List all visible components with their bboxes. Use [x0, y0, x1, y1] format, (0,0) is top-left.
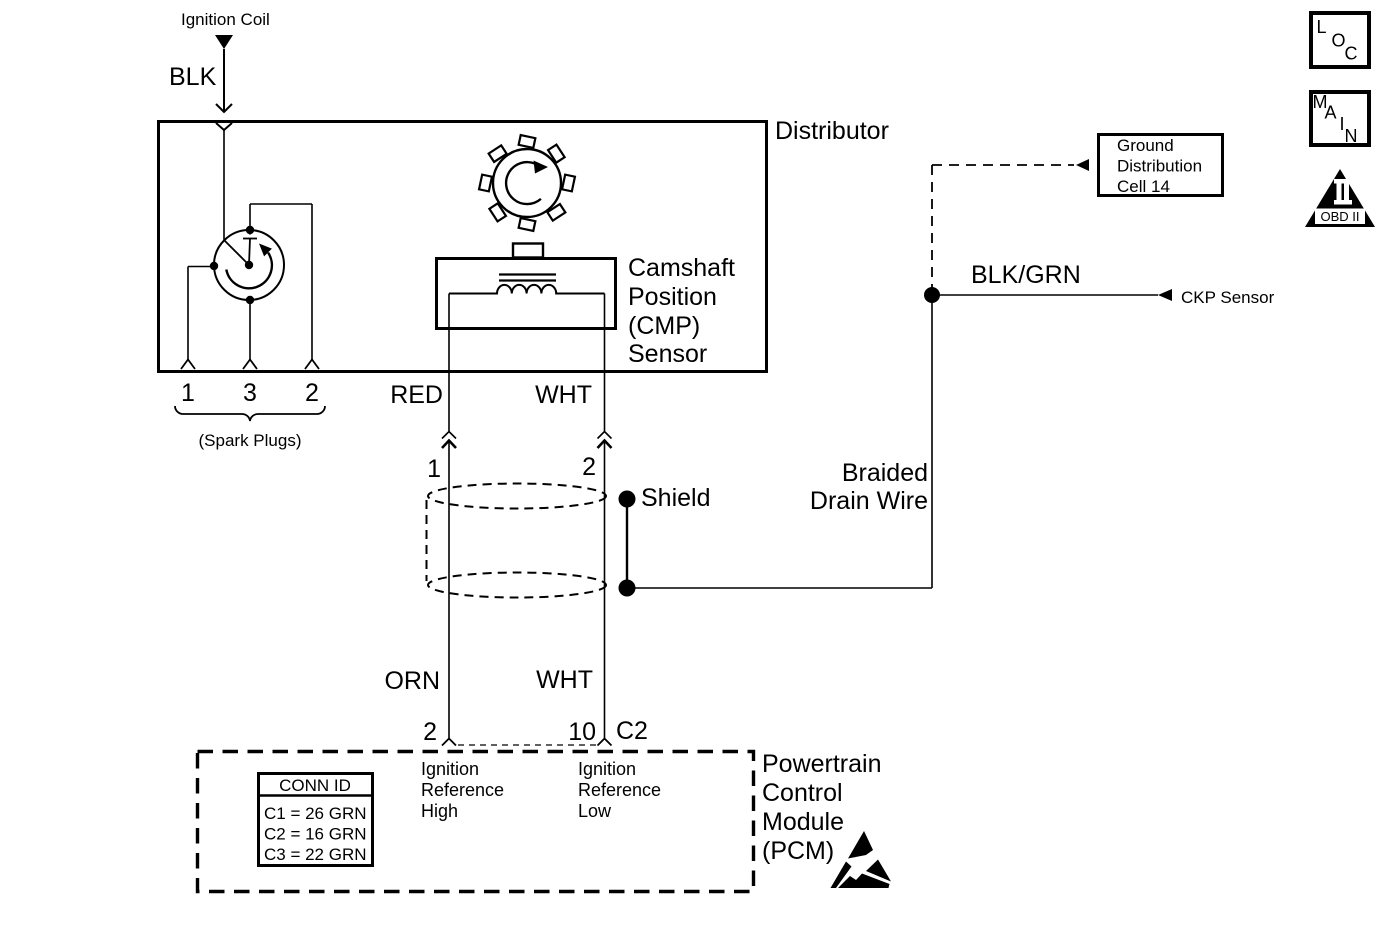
- svg-text:(PCM): (PCM): [762, 837, 834, 865]
- svg-text:CKP Sensor: CKP Sensor: [1181, 288, 1275, 307]
- svg-text:Drain Wire: Drain Wire: [810, 487, 928, 515]
- svg-text:2: 2: [582, 453, 596, 481]
- svg-text:RED: RED: [390, 381, 443, 409]
- svg-text:Reference: Reference: [421, 780, 504, 800]
- svg-text:C3 = 22 GRN: C3 = 22 GRN: [264, 845, 367, 864]
- svg-text:BLK: BLK: [169, 63, 217, 91]
- svg-text:1: 1: [181, 379, 195, 407]
- svg-text:Powertrain: Powertrain: [762, 750, 882, 778]
- svg-text:Distributor: Distributor: [775, 117, 889, 145]
- svg-text:C: C: [1345, 44, 1358, 64]
- svg-text:Distribution: Distribution: [1117, 157, 1202, 176]
- svg-text:BLK/GRN: BLK/GRN: [971, 261, 1081, 289]
- svg-text:Braided: Braided: [842, 459, 928, 487]
- svg-text:A: A: [1325, 103, 1337, 123]
- svg-text:Position: Position: [628, 283, 717, 311]
- svg-text:3: 3: [243, 379, 257, 407]
- svg-text:Reference: Reference: [578, 780, 661, 800]
- svg-text:Sensor: Sensor: [628, 340, 707, 368]
- svg-text:10: 10: [568, 718, 596, 746]
- svg-text:Ground: Ground: [1117, 136, 1174, 155]
- svg-text:WHT: WHT: [535, 381, 592, 409]
- svg-text:High: High: [421, 801, 458, 821]
- svg-text:(CMP): (CMP): [628, 312, 700, 340]
- svg-text:Ignition Coil: Ignition Coil: [181, 10, 270, 29]
- svg-text:Ignition: Ignition: [578, 759, 636, 779]
- svg-text:2: 2: [305, 379, 319, 407]
- svg-text:Ignition: Ignition: [421, 759, 479, 779]
- svg-text:ORN: ORN: [384, 667, 440, 695]
- svg-text:C1 = 26 GRN: C1 = 26 GRN: [264, 804, 367, 823]
- svg-text:N: N: [1345, 126, 1358, 146]
- svg-text:C2 = 16 GRN: C2 = 16 GRN: [264, 825, 367, 844]
- svg-text:Control: Control: [762, 779, 843, 807]
- svg-text:Cell 14: Cell 14: [1117, 177, 1170, 196]
- svg-text:CONN ID: CONN ID: [279, 776, 351, 795]
- svg-text:C2: C2: [616, 717, 648, 745]
- svg-text:L: L: [1317, 17, 1327, 37]
- svg-text:OBD II: OBD II: [1320, 209, 1359, 224]
- svg-text:Shield: Shield: [641, 484, 711, 512]
- svg-text:WHT: WHT: [536, 666, 593, 694]
- svg-text:O: O: [1332, 31, 1346, 51]
- svg-text:Low: Low: [578, 801, 612, 821]
- svg-text:(Spark Plugs): (Spark Plugs): [199, 431, 302, 450]
- svg-text:Module: Module: [762, 808, 844, 836]
- svg-text:Camshaft: Camshaft: [628, 254, 735, 282]
- svg-text:2: 2: [423, 718, 437, 746]
- svg-text:1: 1: [427, 455, 441, 483]
